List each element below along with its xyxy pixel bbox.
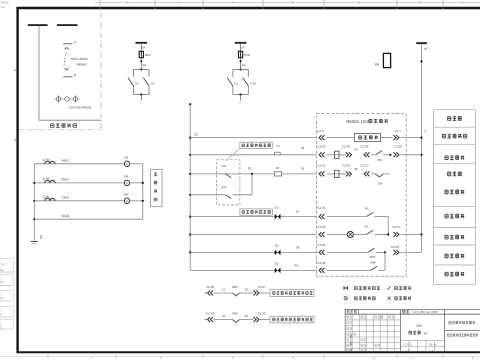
svg-text:RMW1-1000: RMW1-1000 [346,119,370,124]
svg-text:02: 02 [248,166,252,170]
legend red lamp symbol [344,286,380,290]
svg-text:3 3 8 2: 3 3 8 2 [404,343,413,347]
right supply wire [420,44,422,252]
svg-text:1LHc: 1LHc [43,194,50,198]
incoming-1 contact box dashed [217,160,240,205]
svg-text:K1: K1 [135,82,139,86]
svg-text:05: 05 [301,166,305,170]
neutral wire N411 [34,214,143,219]
label 储能指示 [445,214,464,218]
svg-text:A: A [126,181,128,185]
svg-text:0BF: 0BF [232,312,238,316]
wire 03 interlock row with button 7A [190,144,316,156]
svg-text:1-: 1- [1,312,4,316]
svg-text:CZ:29: CZ:29 [317,145,326,149]
svg-text:BX-0.66 (400/5): BX-0.66 (400/5) [70,106,92,110]
svg-text:1A: 1A [241,45,245,49]
svg-text:09: 09 [296,246,300,250]
label 分闸指示 [445,272,464,276]
svg-text:CZ:31: CZ:31 [317,164,326,168]
svg-text:01: 01 [195,132,199,136]
connector CZ:32 [342,164,358,177]
svg-text:O1: O1 [1,296,5,300]
svg-text:10F: 10F [377,181,382,185]
svg-text:1LHb: 1LHb [43,177,50,181]
svg-text:SA: SA [364,225,368,229]
current transformer symbols [54,95,80,102]
svg-text:A411: A411 [62,159,70,163]
label 分闸回路 [445,156,464,160]
function label column boxes [434,110,476,285]
breaker DW1-400 symbol [64,48,69,71]
wire 09 row with lamp 2D [190,244,316,256]
svg-text:8: 8 [350,341,353,346]
disconnector terminal A [63,40,77,44]
svg-text:8: 8 [350,334,353,339]
primary scheme label 一次方案图 [51,124,77,128]
ammeter return riser wire [142,164,144,219]
wire from busbar to scheme frame [39,26,101,120]
svg-text:12: 12 [245,287,249,291]
wire 011 row with lamp 3D [190,262,316,274]
label 储能回路 [445,235,464,239]
svg-text:7A: 7A [276,144,280,148]
svg-text:CZ:33: CZ:33 [317,206,326,210]
legend breaker contact symbol [388,297,411,300]
svg-text:E: E [40,235,43,240]
svg-text:22: 22 [245,314,249,318]
interlock take-off CZ:36 to incoming 1 [204,285,314,296]
svg-text:011: 011 [294,264,299,268]
wire 05 row with resistor 1R [190,166,316,176]
connector CZ:29 with fuse [317,145,346,159]
CT label BX-0.66 (400/5) [70,106,92,110]
connector CZ:3 [317,129,324,140]
connector CZ:30 [342,145,358,158]
svg-text:23F: 23F [222,185,227,189]
title RMW1-1000 内部接线 [346,119,387,124]
wire 01 remote-control row [190,132,316,137]
svg-text:K1: K1 [235,82,239,86]
svg-text:CZ:40: CZ:40 [258,312,267,316]
disconnector terminal N [63,73,77,77]
svg-text:CZ:37: CZ:37 [258,285,267,289]
svg-text:Y1: Y1 [424,47,428,51]
svg-text:1RD: 1RD [244,53,251,57]
svg-text:K1A: K1A [251,82,257,86]
legend button symbol [344,297,375,300]
ground E [31,235,43,244]
svg-text:N411: N411 [62,214,70,218]
control fuse circuit 2RD with K1 contacts [128,42,155,105]
svg-text:CZ:39: CZ:39 [206,312,215,316]
control fuse circuit 1RD with K1 contacts [227,42,256,105]
current transformer 1LHa phase A row [34,156,143,167]
svg-text:C411: C411 [62,196,70,200]
svg-text:04: 04 [354,147,358,151]
connector CZ:34 [392,225,422,237]
svg-text:0BF: 0BF [232,285,238,289]
svg-text:(400A): (400A) [77,63,87,67]
connector CZ:7 [393,129,427,140]
current transformer 1LHc phase C row [34,193,143,204]
connector CZ:31 with fuse [317,164,346,178]
connector CZ:28 with contact 03F [360,145,391,162]
relay coil K6 [375,53,391,67]
svg-text:W4: W4 [1,5,6,9]
connector CZ:23 [391,245,422,255]
svg-text:SA: SA [364,207,368,211]
svg-text:13F: 13F [222,164,227,168]
legend aux contact symbol [387,286,411,289]
svg-text:CZ:22: CZ:22 [317,261,326,265]
busbar section bar 1 [28,24,48,26]
current measuring box 电流测量 [151,169,163,206]
title block grid [345,309,480,351]
auxiliary contact 13F [217,164,240,178]
connector CZ:22 with contact 0BF [317,252,385,273]
auxiliary contact 23F branch [190,174,252,199]
svg-text:CZ:3: CZ:3 [317,129,324,133]
svg-text:1LHa: 1LHa [43,157,50,161]
connector CZ:35 with lamp and switch SA [317,225,389,238]
svg-text:2A: 2A [142,45,146,49]
svg-text:0DF: 0DF [370,255,376,259]
label 合闸回路 [445,190,464,194]
connector CZ:24 with contact 0DF [317,243,386,259]
title block texts [347,310,478,352]
svg-text:TRC: TRC [1,263,7,267]
label box 来自2号进线柜 [240,209,272,215]
label 联锁及 [448,172,462,176]
svg-text:1 4: 1 4 [430,348,434,352]
supply busbar Y1 [416,42,428,51]
svg-text:CZ:19: CZ:19 [360,164,369,168]
svg-text:A1: A1 [242,63,246,67]
svg-text:A: A [126,162,128,166]
connector CZ:20 [393,145,422,158]
svg-text:0B: 0B [1,268,5,272]
svg-text:CZ:30: CZ:30 [342,145,351,149]
svg-text:7 8: 7 8 [406,348,410,352]
left margin revision labels [0,70,18,329]
bottom margin ruler [0,354,480,360]
svg-text:B411: B411 [62,178,70,182]
busbar section bar 2 [57,24,78,26]
svg-text:CZ:28: CZ:28 [360,145,369,149]
svg-text:2RD: 2RD [145,53,152,57]
svg-text:GCS-080 GL4-080: GCS-080 GL4-080 [413,310,438,314]
svg-text:A2: A2 [142,63,146,67]
svg-text:5#: 5# [424,331,428,335]
current transformer 1LHb phase B row [34,175,143,186]
svg-text:03F: 03F [377,158,382,162]
svg-text:CZ:20: CZ:20 [394,145,403,149]
svg-text:A: A [126,199,128,203]
connector CZ:33 with switch SA [317,206,388,235]
interlock take-off CZ:39 to incoming 2 [204,312,314,323]
connector CZ:19 with contact 10F [360,164,390,186]
svg-text:CZ:7: CZ:7 [395,129,402,133]
top-left margin text [1,1,10,9]
svg-text:DW1-400/3: DW1-400/3 [71,57,88,61]
label 合闸指示 [445,254,464,258]
svg-text:CZ:35: CZ:35 [317,225,326,229]
label 熔断器 [448,117,462,121]
svg-text:0BF: 0BF [371,261,377,265]
svg-text:4WX0: 4WX0 [1,1,10,5]
svg-text:OT: OT [1,280,5,284]
svg-text:CZ:32: CZ:32 [342,164,351,168]
remote control unit box 遥控单元 [327,133,393,141]
svg-text:K1: K1 [151,82,155,86]
RMW1-1000 internal wiring dashed enclosure [316,113,406,276]
svg-text:CZ:34: CZ:34 [392,225,401,229]
label box 来自1号进线柜 [226,142,272,161]
top margin ruler [95,0,480,10]
svg-text:CZ:24: CZ:24 [317,243,326,247]
wire 07 row with lamp 1D [190,206,316,220]
svg-text:03: 03 [301,146,305,150]
svg-text:11: 11 [222,287,225,291]
svg-text:CZ:36: CZ:36 [206,285,215,289]
cubicle boundary dash-dot line [19,13,102,129]
CT secondary left riser wire [33,164,35,242]
svg-text:WX: WX [417,324,423,328]
label 处理器电源 [442,134,466,138]
svg-text:06: 06 [354,167,358,171]
breaker label DW1-400/3 [71,57,88,67]
svg-text:07: 07 [296,210,300,214]
svg-text:GB 1#: GB 1# [429,343,437,347]
control bus riser [189,103,191,270]
svg-text:K6: K6 [375,63,379,67]
svg-text:CZ:23: CZ:23 [391,245,400,249]
svg-text:4: 4 [350,348,353,353]
svg-text:21: 21 [222,314,226,318]
wire row to CZ:35 [190,234,316,236]
